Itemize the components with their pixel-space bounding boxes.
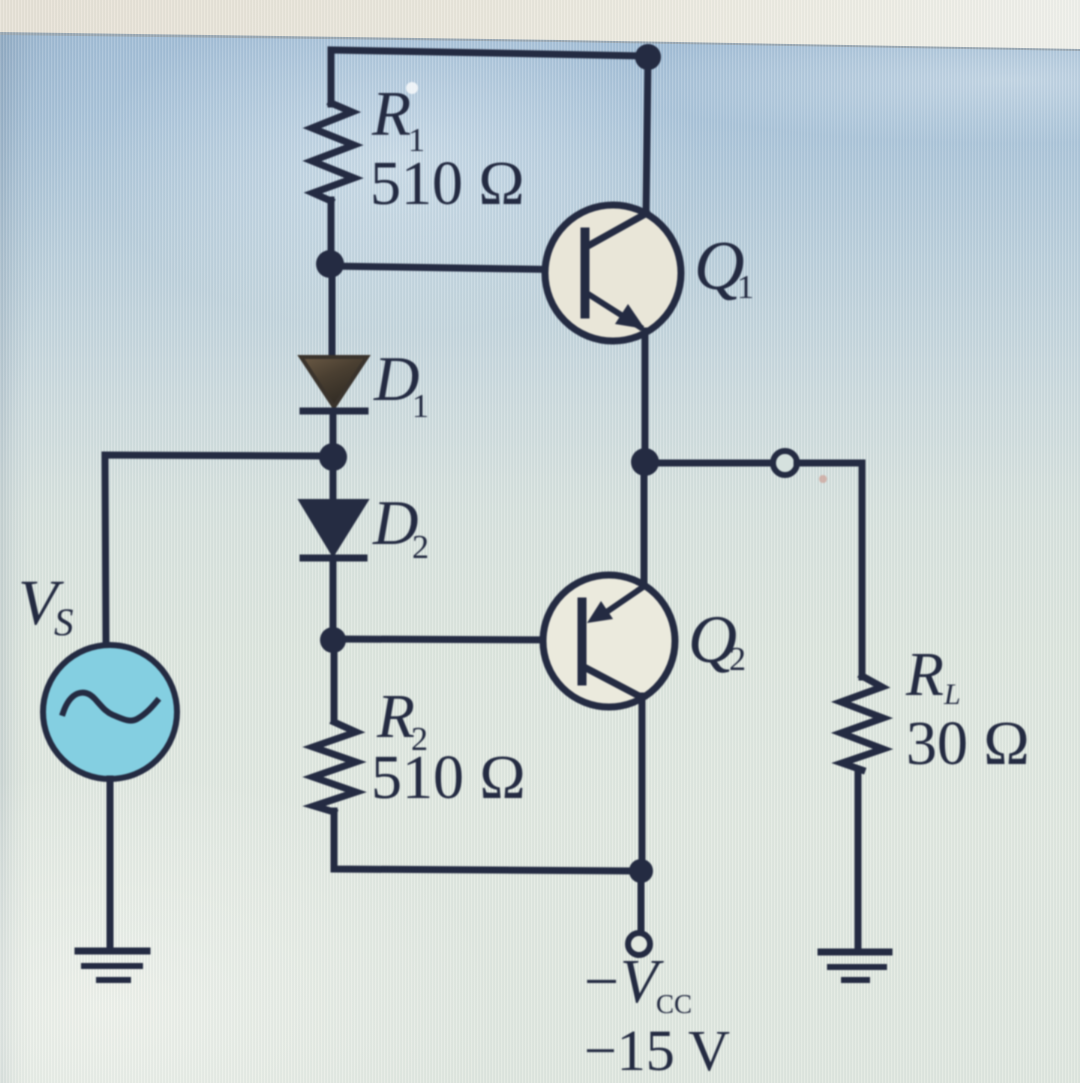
wire output to open terminal (645, 460, 772, 467)
svg-text:S: S (54, 601, 74, 644)
svg-text:1: 1 (737, 269, 754, 306)
label Q1 (694, 228, 754, 306)
glare speck (406, 82, 418, 94)
wire node C to R2 (331, 640, 338, 720)
node A (R1 / D1 / Q1 base) (316, 250, 344, 278)
cream desk band at top (0, 0, 1080, 60)
node B (D1 / D2 / Vs) (319, 443, 347, 471)
svg-text:510 Ω: 510 Ω (370, 150, 525, 218)
diode D1 (301, 357, 367, 411)
transistor Q2 (543, 575, 675, 707)
diode D2 (301, 501, 366, 558)
svg-text:1: 1 (412, 388, 429, 425)
wire node A to D1 (329, 264, 336, 358)
wire collector column of Q1 (646, 57, 648, 215)
wire node D to -Vcc terminal (638, 871, 645, 930)
terminal -Vcc open circle (628, 933, 650, 955)
svg-text:CC: CC (656, 989, 692, 1019)
label D1 (373, 344, 429, 425)
svg-text:R: R (905, 641, 944, 709)
node E (Q1 emitter / Q2 emitter / output) (631, 448, 659, 476)
wire node B to D2 (330, 457, 337, 502)
wire terminal to RL (797, 463, 862, 677)
label Q2 (688, 601, 746, 678)
wire node B to Vs (105, 455, 333, 647)
transistor Q1 (545, 205, 681, 341)
label -Vcc (584, 948, 692, 1019)
label Vs (18, 567, 74, 644)
screen bezel edge (0, 0, 1080, 62)
wire RL to ground (855, 770, 862, 951)
wire Q2 collector to node D (639, 696, 646, 871)
ground (Vs) (78, 951, 147, 980)
svg-text:2: 2 (729, 641, 746, 678)
label D2 (372, 488, 429, 566)
wire Vs to ground (107, 779, 114, 950)
svg-text:L: L (943, 678, 961, 711)
wire R1 bottom to node A (328, 200, 335, 268)
svg-text:R: R (376, 683, 415, 751)
source Vs (43, 645, 177, 779)
svg-text:R: R (371, 78, 411, 149)
svg-text:2: 2 (412, 529, 429, 566)
svg-text:510 Ω: 510 Ω (371, 744, 526, 812)
label R1 (371, 78, 425, 159)
wire top rail from R1 to Q1 collector (331, 50, 648, 104)
glare speck 2 (819, 475, 827, 483)
svg-text:−15 V: −15 V (584, 1018, 730, 1083)
svg-text:−: − (584, 948, 619, 1016)
resistor RL (841, 676, 883, 770)
wire D1 to node B (330, 411, 337, 458)
wire node E to Q2 emitter (641, 462, 648, 588)
label R2 (376, 683, 428, 758)
node top-right junction (635, 44, 661, 70)
output open terminal (773, 451, 797, 475)
wire Q1 base (330, 266, 584, 270)
wire Q1 emitter to node E (642, 331, 649, 463)
node D (bottom rail / Q2 collector / -Vcc) (629, 859, 653, 883)
label RL (905, 641, 961, 711)
node C (D2 / R2 / Q2 base) (320, 627, 346, 653)
resistor R2 (313, 722, 356, 812)
wire Q2 base (333, 639, 582, 640)
wire R2 to bottom rail (334, 811, 641, 871)
resistor R1 (312, 103, 354, 201)
ground (RL) (821, 952, 889, 980)
wire D2 to node C (330, 558, 337, 642)
svg-text:30 Ω: 30 Ω (906, 710, 1030, 778)
